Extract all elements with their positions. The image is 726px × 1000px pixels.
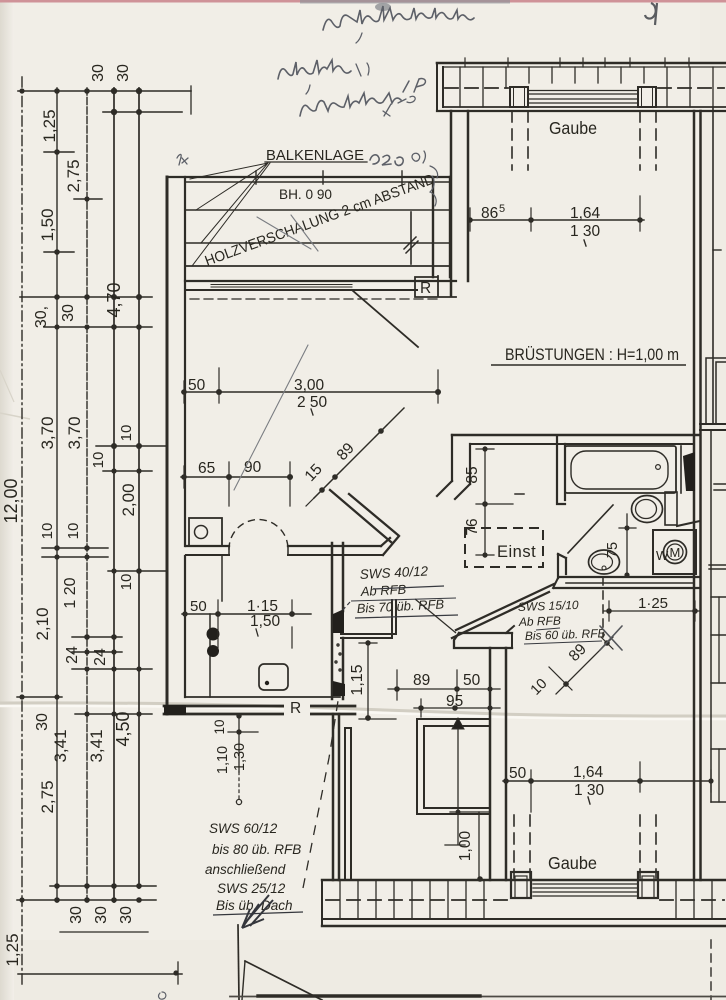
dim 75 vertical [626,514,628,577]
svg-text:M: M [670,545,681,560]
svg-text:12,00: 12,00 [1,478,21,523]
kitchen wall black triangle upper [333,609,344,633]
balkenlage leader fan [190,163,270,266]
chain tick y91 [18,90,191,92]
svg-text:30: 30 [115,64,132,82]
gaube2 dim line [503,780,712,782]
bathtub inner [571,451,668,489]
kitchen wall black triangle lower [333,681,345,696]
svg-text:24: 24 [64,646,81,664]
roof slope arrow zigzag [404,237,418,253]
svg-text:1,25: 1,25 [40,109,59,142]
svg-text:1,25: 1,25 [3,933,22,966]
building bottom wall band [164,705,355,708]
dim 1,00 line upper [445,729,465,845]
right neighbour sill lines [700,424,726,430]
right edge dashed bottom [710,940,712,1000]
svg-text:90: 90 [244,459,262,476]
svg-text:5: 5 [499,203,505,215]
fold crease horizontal main [0,703,726,716]
triangle marker 95 [452,718,464,729]
chain tick y548 [42,547,108,549]
svg-text:2,75: 2,75 [38,780,57,813]
svg-text:30: 30 [68,906,85,924]
hand drawn arrow [242,895,273,928]
chain tick y470 [103,470,152,472]
gaube2 band left edge [321,880,323,926]
gaube2 dots [503,778,713,784]
svg-text:BALKENLAGE: BALKENLAGE [266,147,364,164]
dim 1,15 right of kitchen [367,641,369,719]
bath dots [482,446,629,577]
chain tick y571 [108,570,166,572]
gaube2 band ticks [340,880,712,919]
roof slope arrow vertical [410,212,412,264]
chain tick y974 cross [177,962,179,984]
gaube1 window post right [638,87,656,107]
chain tick y714 [75,713,152,715]
right edge inner vertical segments [718,597,720,802]
svg-text:10: 10 [212,719,227,734]
black wall triangle right of tub [683,452,695,491]
pencil scrawl Kv [177,154,188,165]
pencil scrawl line3 [300,93,401,116]
scanner top edge pink line [0,0,726,3]
bath bottom wall band [560,576,700,578]
chain tick y199 [74,198,102,200]
dashed door line bath [602,577,604,637]
svg-text:BH. 0 90: BH. 0 90 [279,186,332,202]
kitchen counter edge [210,556,222,697]
washbasin [589,550,620,574]
tub right wall lines [680,446,682,493]
bottom page edge line [230,996,726,998]
pencil scrawl 320 o) [370,155,403,166]
pencil scrawl 1P [403,79,426,92]
gaube2 window post left [511,872,531,898]
chain tick y932 [60,931,148,933]
svg-text:30: 30 [60,304,77,322]
svg-text:30: 30 [90,64,107,82]
svg-text:10: 10 [65,523,82,540]
bottom wall corner solid [164,705,186,715]
wall west band (balcony + living) [166,177,169,714]
dim line 3,00 [182,391,440,393]
gaube1 dim text tick [584,240,586,246]
svg-text:R: R [290,700,301,717]
pencil mark bottom circle [159,992,166,999]
svg-text:10: 10 [39,523,56,540]
bottom sketch vertical line [238,925,239,1000]
bath top wall left end stub [452,435,470,484]
svg-text:1,00: 1,00 [457,831,474,862]
living dim dots [181,389,441,493]
svg-text:1,30: 1,30 [232,743,248,771]
double wall below building left leaf [333,714,339,880]
R box top left [415,276,456,297]
svg-text:10: 10 [90,452,107,469]
gaube1 band ticks [460,67,713,107]
chain tick y900 [17,899,156,901]
svg-text:3,41: 3,41 [87,729,106,762]
svg-text:bis 80 üb. RFB: bis 80 üb. RFB [212,842,301,857]
svg-text:1,50: 1,50 [250,613,281,630]
hall dim line 89/50 [388,688,500,690]
gaube1 roof band outline [437,62,726,65]
svg-text:2,10: 2,10 [33,607,52,640]
svg-text:2,75: 2,75 [64,159,83,192]
gaube2 roof band bottom lines [322,918,726,920]
balcony right wall band [432,177,434,277]
leader dashes to shaft [341,602,350,612]
chain tick y974 bottom [18,973,182,975]
scanner top edge dark mark [645,3,657,25]
svg-text:Ab RFB: Ab RFB [518,614,561,629]
gaube2 dashed jambs [514,815,656,878]
wall A vertical band (gaube2 west wall) [490,648,506,880]
svg-text:SWS 60/12: SWS 60/12 [209,821,278,836]
gaube1 dim dots [467,217,643,223]
svg-text:SWS 25/12: SWS 25/12 [217,881,286,896]
bruestungen underline [491,364,686,366]
toilet tank [665,492,677,525]
chain tick y297 [20,296,152,298]
chain tick y557 [42,556,108,558]
pencil scrawl top line1 [323,6,474,30]
wall A horizontal band [454,633,512,648]
chain tick y697 [17,696,62,698]
svg-text:1,10: 1,10 [215,746,231,774]
right neighbour tick [713,249,726,251]
diagonal dim perpendicular slashes [306,425,387,506]
white gap for R bottom [284,701,310,718]
wall A right end notch [506,626,514,648]
bathtub drain [656,465,661,470]
svg-text:SWS 15/10: SWS 15/10 [518,598,579,614]
washing machine box [653,530,696,574]
chain tick y112 [103,111,182,113]
dashed leader to wall [303,701,338,888]
svg-text:10: 10 [118,574,135,591]
hall dim line 95 [414,707,500,709]
stove burners black [207,628,220,658]
pencil scribble left of gaube1 [430,166,438,206]
dim chain vertical line 4 [113,88,115,902]
kitchen dim 50/1.15 [182,600,311,648]
right neighbour wall line [712,107,714,424]
svg-text:50: 50 [190,598,207,615]
dim chain vertical line 1 (dash-dot, far left) [21,77,23,985]
dim chain vertical line 3 [86,88,88,902]
bath bottom wall chamfer [553,578,558,588]
svg-text:2,00: 2,00 [119,483,138,516]
svg-text:Ab RFB: Ab RFB [359,582,407,599]
diagonal dim 15/89 line [314,408,404,498]
kitchen sink dot [265,681,269,685]
svg-text:W: W [656,548,669,563]
svg-text:Gaube: Gaube [549,118,597,138]
room B outline [417,719,424,814]
wm diagonal sill [677,521,700,526]
dim chain vertical line 2 [56,88,58,902]
corridor wall corner vertical band [392,600,396,638]
chain tick y327 [44,326,152,328]
wall speckles [335,644,341,671]
svg-text:3,70: 3,70 [65,416,84,449]
dim 1,00 line lower [478,812,480,879]
svg-text:4,70: 4,70 [104,282,124,317]
bathtub outer [565,446,676,493]
svg-text:50: 50 [188,377,206,394]
gaube1 band ticks above [465,58,689,67]
pencil X cross hall [600,626,622,650]
gaube2 dim comma tick [588,797,590,804]
svg-text:30: 30 [118,906,135,924]
svg-text:86: 86 [481,205,498,222]
right edge ticks lower [709,484,726,802]
diagonal roof slope line living room [352,290,418,347]
svg-text:Einst: Einst [497,543,536,561]
chain dots [19,88,178,976]
gaube1 dim line [468,219,644,221]
east wall main band [694,111,701,880]
svg-text:75: 75 [605,542,621,558]
balcony top edge double [167,176,450,178]
chain tick y886 [50,885,156,887]
svg-text:85: 85 [464,466,481,483]
bath lower left stub [558,554,566,578]
svg-text:30: 30 [34,713,51,731]
svg-text:89: 89 [413,672,430,689]
gaube2 window post right [638,872,658,898]
kitchen right wall band [332,543,343,699]
diagonal wall bath to hall [452,584,554,638]
corridor diagonal wall [330,490,398,542]
bath stub diagonal open end [437,481,470,499]
svg-text:BRÜSTUNGEN : H=1,00 m: BRÜSTUNGEN : H=1,00 m [505,346,679,364]
bath top wall band [452,434,700,436]
shaft horizontal band [341,634,396,638]
gaube2 band dashed mid [326,899,724,901]
svg-text:3,41: 3,41 [51,729,70,762]
leader underline extension [351,598,456,601]
dim line 65/90 [181,476,292,478]
chain dim texts (rotated) [1,64,138,967]
dim 10/1,10/1,30 below wall [238,715,240,772]
chain tick y652 [72,651,122,653]
stove box on wall [189,518,222,546]
svg-text:24: 24 [92,648,109,666]
chain tick y252 [44,251,74,253]
svg-text:30,: 30, [33,306,50,328]
svg-text:Bis 60 üb. RFB: Bis 60 üb. RFB [525,626,606,643]
kitchen sink square [259,664,288,690]
svg-text:3,70: 3,70 [38,416,57,449]
chain tick end vertical [190,86,192,114]
kitchen inner floor line [186,696,340,698]
balcony joist line 1 [185,209,450,211]
handwriting 40/12 underlines [355,586,458,618]
svg-text:1,64: 1,64 [570,205,601,222]
pencil construction diagonals balcony [234,215,318,490]
gaube1 west wall band [451,111,468,296]
bottom sketch triangle hypotenuse [245,961,322,1000]
balcony joist line 2 [185,242,450,244]
chain tick y669 [72,668,152,670]
gaube2 roof band top line [322,879,726,881]
bath left wall band [557,436,565,504]
svg-text:10: 10 [118,425,135,442]
svg-text:50: 50 [463,672,481,689]
kitchen door dashed arc [229,520,288,549]
svg-text:3,00: 3,00 [294,377,325,394]
gaube1 window lines [528,91,638,104]
kitchen/living divider wall [186,545,381,547]
svg-text:1 30: 1 30 [570,223,601,240]
svg-text:65: 65 [198,460,215,477]
bottom sketch triangle left side [242,961,245,1000]
small dash mark [515,493,524,495]
svg-text:1 30: 1 30 [574,782,605,799]
dim comma tick 2,50 [311,409,313,415]
gaube1 band dashed mid line [445,87,724,89]
svg-text:1,15: 1,15 [349,664,366,695]
balcony/living divider wall + sliding door [185,280,456,282]
svg-text:Gaube: Gaube [548,853,597,873]
gaube1 window post left [510,87,528,107]
dashed line below door [190,298,440,300]
svg-text:1,50: 1,50 [38,208,57,241]
svg-text:1,64: 1,64 [573,764,604,781]
balkenlage underline [265,161,367,163]
svg-text:R: R [420,280,431,297]
bath door swing line [568,505,613,553]
svg-text:1 20: 1 20 [62,577,79,608]
lower dots [236,608,698,882]
dim chain vertical line 5 [138,88,140,888]
svg-text:30: 30 [93,906,110,924]
svg-text:1·25: 1·25 [638,595,668,612]
pencil smudge blob [375,3,391,11]
dim 1.25 line [604,610,700,612]
chain tick y446 [96,445,166,447]
toilet bowl [632,496,663,523]
double wall below building right leaf [345,728,351,880]
fold crease small left [0,413,30,419]
chain tick y637 [72,636,122,638]
right edge lower vertical [710,430,712,802]
joist tick marks [256,171,402,184]
svg-text:anschließend: anschließend [205,862,286,877]
chain tick y152 [44,151,74,153]
balcony joist line 3 [185,265,450,267]
svg-text:2 50: 2 50 [297,394,328,411]
svg-text:50: 50 [509,765,527,782]
leader line 40/12 [415,599,456,633]
svg-text:4,50: 4,50 [113,711,133,746]
pencil scrawl line2 [278,60,351,79]
Einst dashed box [465,528,543,567]
handwriting 15/10 underline [524,628,602,644]
dim 85/76 vertical line [484,447,486,557]
svg-text:95: 95 [446,693,463,710]
gaube1 dashed jamb lines [512,111,656,170]
diagonal dim 89/10 lower [556,637,613,694]
handwriting 60/12 underline [213,912,303,915]
gaube2 window lines [533,884,638,896]
right neighbour corner nest [706,358,726,424]
dim 85/76 ticks [476,449,513,555]
